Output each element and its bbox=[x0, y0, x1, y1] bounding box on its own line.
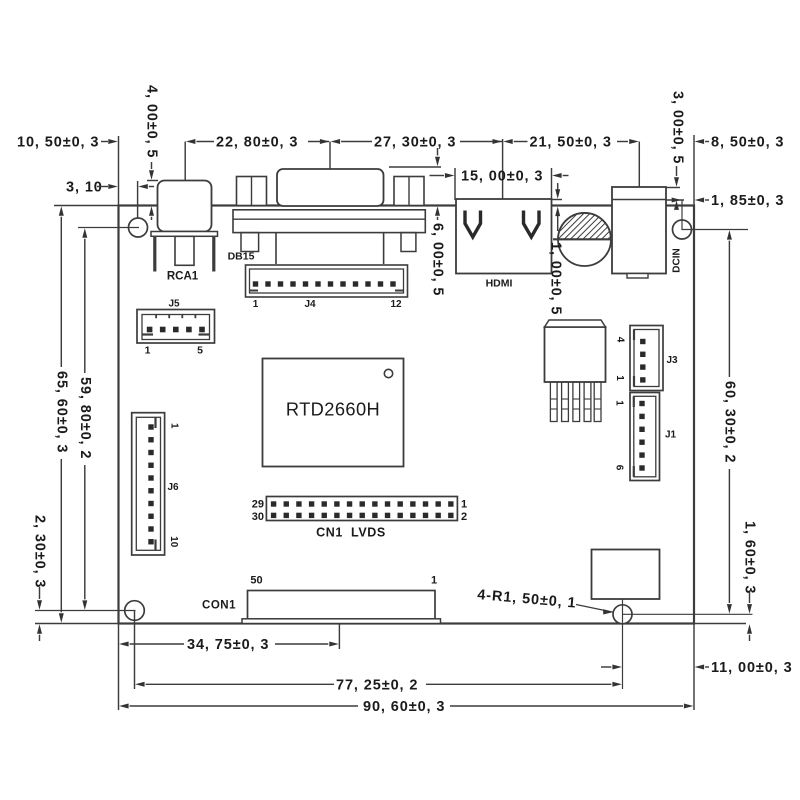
extension line: DCIN center up bbox=[638, 142, 640, 188]
extension line: board right edge extended down bbox=[693, 624, 695, 711]
DB15 right screw post bbox=[394, 177, 424, 206]
svg-text:DB15: DB15 bbox=[228, 251, 255, 263]
svg-text:3, 10: 3, 10 bbox=[66, 180, 103, 196]
svg-text:J5: J5 bbox=[168, 299, 180, 310]
connector DB15 shell bbox=[277, 169, 384, 206]
mounting hole bottom-right bbox=[613, 599, 753, 689]
svg-text:1: 1 bbox=[431, 575, 437, 587]
dimension 1,00±0,5 bbox=[548, 183, 564, 315]
extension line: board right edge extended up bbox=[693, 135, 695, 206]
extension line: DB15 center up bbox=[329, 142, 331, 170]
connector J3 bbox=[630, 326, 663, 391]
svg-text:10: 10 bbox=[168, 536, 179, 548]
extension line: HDMI center up bbox=[502, 139, 504, 200]
svg-text:59, 80±0, 2: 59, 80±0, 2 bbox=[77, 377, 93, 459]
connector DCIN power jack bbox=[612, 187, 666, 278]
DB15 right tab bbox=[401, 233, 416, 252]
extension line: HDMI left edge extended up bbox=[454, 168, 456, 200]
extension line: board bottom edge extended left bbox=[35, 623, 119, 625]
connector J4 bbox=[246, 265, 408, 297]
extension line: board bottom edge extended right bbox=[694, 623, 746, 625]
svg-text:8, 50±0, 3: 8, 50±0, 3 bbox=[711, 135, 784, 151]
connector CON1 bbox=[242, 591, 441, 624]
dimension 90,60±0,3 bbox=[119, 699, 693, 715]
dimension 27,30±0,3 bbox=[331, 135, 502, 151]
svg-text:1: 1 bbox=[461, 499, 467, 511]
extension line: top-right hole center horizontal bbox=[682, 229, 748, 231]
svg-text:CON1: CON1 bbox=[202, 600, 236, 612]
svg-text:27, 30±0, 3: 27, 30±0, 3 bbox=[374, 135, 456, 151]
svg-text:30: 30 bbox=[252, 511, 264, 523]
svg-text:10, 50±0, 3: 10, 50±0, 3 bbox=[17, 135, 99, 151]
svg-text:1: 1 bbox=[614, 375, 625, 381]
dimension 4-R1,50±0,1 with leader bbox=[477, 587, 615, 614]
svg-text:DCIN: DCIN bbox=[672, 248, 683, 272]
dimension 1,60±0,3 bbox=[742, 521, 758, 641]
DB15 lower body bbox=[276, 233, 384, 264]
DB15 flange bbox=[233, 210, 425, 233]
connector RCA1 body bbox=[151, 181, 218, 272]
extension line: HDMI top edge extended right bbox=[552, 199, 562, 201]
connector HDMI bbox=[456, 199, 552, 274]
extension line: bottom-left hole center horizontal bbox=[35, 610, 136, 612]
dimension 60,30±0,2 bbox=[721, 230, 737, 613]
extension line: top-right hole center vertical bbox=[681, 200, 683, 230]
dimension 10,50±0,3 bbox=[17, 135, 118, 151]
svg-text:2, 30±0, 3: 2, 30±0, 3 bbox=[32, 515, 48, 588]
extension line: RCA1 center up bbox=[184, 142, 186, 182]
svg-text:5: 5 bbox=[197, 345, 203, 357]
dimension 6,00±0,5 bbox=[430, 148, 446, 296]
svg-text:6: 6 bbox=[614, 465, 625, 471]
svg-text:29: 29 bbox=[252, 499, 264, 511]
dimension 2,30±0,3 bbox=[32, 515, 48, 641]
svg-text:22, 80±0, 3: 22, 80±0, 3 bbox=[216, 135, 298, 151]
svg-text:J3: J3 bbox=[666, 355, 678, 366]
dimension 34,75±0,3 bbox=[119, 637, 339, 653]
connector J1 bbox=[630, 393, 660, 481]
svg-text:77, 25±0, 2: 77, 25±0, 2 bbox=[336, 677, 418, 693]
fuse F1 circle with hatched half bbox=[553, 213, 611, 266]
dimension 3,00±0,5 bbox=[670, 91, 686, 210]
dimension 21,50±0,3 bbox=[503, 135, 639, 151]
dimension 59,80±0,2 bbox=[77, 228, 93, 610]
svg-text:RCA1: RCA1 bbox=[167, 271, 199, 283]
mounting hole top-right bbox=[673, 220, 692, 239]
svg-text:12: 12 bbox=[390, 299, 402, 310]
svg-text:1, 00±0, 5: 1, 00±0, 5 bbox=[548, 242, 564, 315]
extension line: RCA1 top edge extended left bbox=[147, 180, 158, 182]
dimension 8,50±0,3 bbox=[695, 135, 785, 151]
svg-text:CN1 LVDS: CN1 LVDS bbox=[316, 526, 386, 540]
mounting hole top-left bbox=[129, 218, 148, 237]
svg-text:6, 00±0, 5: 6, 00±0, 5 bbox=[430, 223, 446, 296]
svg-text:50: 50 bbox=[250, 575, 262, 587]
svg-text:60, 30±0, 2: 60, 30±0, 2 bbox=[721, 381, 737, 463]
mounting hole bottom-left bbox=[125, 601, 145, 621]
IC U1 RTD2660H bbox=[263, 359, 404, 467]
PCB board outline bbox=[119, 206, 695, 624]
svg-text:1: 1 bbox=[169, 423, 180, 429]
svg-text:15, 00±0, 3: 15, 00±0, 3 bbox=[461, 169, 543, 185]
svg-text:90, 60±0, 3: 90, 60±0, 3 bbox=[363, 699, 445, 715]
connector J6 bbox=[132, 413, 165, 555]
svg-text:11, 00±0, 3: 11, 00±0, 3 bbox=[711, 660, 793, 676]
extension line: DB15 shell top extended right bbox=[389, 166, 441, 168]
extension line: board top edge extended left bbox=[54, 205, 119, 207]
svg-text:21, 50±0, 3: 21, 50±0, 3 bbox=[530, 135, 612, 151]
dimension 11,00±0,3 bbox=[601, 660, 793, 676]
extension line: bottom-left hole center vertical down bbox=[134, 611, 136, 690]
svg-text:J1: J1 bbox=[665, 430, 677, 441]
svg-text:3, 00±0, 5: 3, 00±0, 5 bbox=[670, 91, 686, 164]
extension line: top-left hole center vertical bbox=[137, 181, 139, 228]
dimension 1,85±0,3 bbox=[672, 193, 785, 209]
dimension 3,10 bbox=[66, 180, 154, 196]
extension line: board left edge extended up bbox=[118, 136, 120, 218]
svg-text:J4: J4 bbox=[304, 299, 316, 310]
connector CN1 LVDS bbox=[266, 497, 457, 521]
svg-text:34, 75±0, 3: 34, 75±0, 3 bbox=[187, 637, 269, 653]
DB15 left tab bbox=[241, 233, 259, 252]
svg-text:HDMI: HDMI bbox=[486, 278, 513, 290]
svg-text:2: 2 bbox=[461, 511, 467, 523]
connector J5 bbox=[137, 310, 215, 344]
svg-text:4, 00±0, 5: 4, 00±0, 5 bbox=[144, 85, 160, 158]
DB15 left screw post bbox=[237, 177, 267, 206]
dimension 4,00±0,5 bbox=[144, 85, 160, 220]
svg-text:1, 85±0, 3: 1, 85±0, 3 bbox=[711, 193, 784, 209]
extension line: top-left hole center horizontal bbox=[78, 227, 139, 229]
dimension 77,25±0,2 bbox=[135, 677, 622, 693]
component bottom-right block bbox=[592, 550, 660, 600]
svg-text:4: 4 bbox=[615, 337, 626, 343]
extension line: CON1 center down bbox=[338, 625, 340, 650]
svg-text:1: 1 bbox=[253, 299, 259, 310]
extension line: DCIN jack lip extended right bbox=[663, 199, 684, 201]
voltage regulator Q1 bbox=[545, 320, 606, 422]
svg-text:J6: J6 bbox=[167, 482, 179, 493]
dimension 22,80±0,3 bbox=[186, 135, 330, 151]
svg-text:1: 1 bbox=[145, 345, 151, 357]
extension line: DCIN jack top extended right bbox=[666, 187, 680, 189]
dimension 15,00±0,3 bbox=[430, 169, 569, 185]
dimension 65,60±0,3 bbox=[53, 206, 69, 623]
extension line: HDMI right edge extended up bbox=[551, 168, 553, 200]
svg-text:1: 1 bbox=[614, 400, 625, 406]
extension line: board left edge extended down bbox=[118, 624, 120, 711]
svg-text:RTD2660H: RTD2660H bbox=[286, 399, 380, 420]
svg-text:65, 60±0, 3: 65, 60±0, 3 bbox=[53, 371, 69, 453]
svg-text:1, 60±0, 3: 1, 60±0, 3 bbox=[742, 521, 758, 594]
